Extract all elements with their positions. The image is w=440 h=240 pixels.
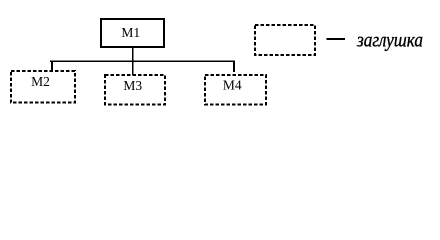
block M3 — [105, 75, 165, 105]
svg-text:M1: M1 — [121, 25, 140, 40]
svg-text:M2: M2 — [31, 74, 50, 89]
legend dash — [326, 38, 344, 40]
block M2 — [11, 71, 75, 103]
bus line — [50, 60, 235, 62]
block M1 — [101, 19, 164, 47]
wire bus to M4 — [233, 60, 235, 72]
wire M1 to bus — [132, 47, 134, 75]
svg-text:заглушка: заглушка — [356, 29, 423, 51]
svg-text:M4: M4 — [223, 78, 242, 93]
svg-text:M3: M3 — [123, 78, 142, 93]
wire bus to M2 — [51, 60, 53, 71]
legend stub box — [255, 25, 315, 55]
block M4 — [205, 75, 266, 105]
